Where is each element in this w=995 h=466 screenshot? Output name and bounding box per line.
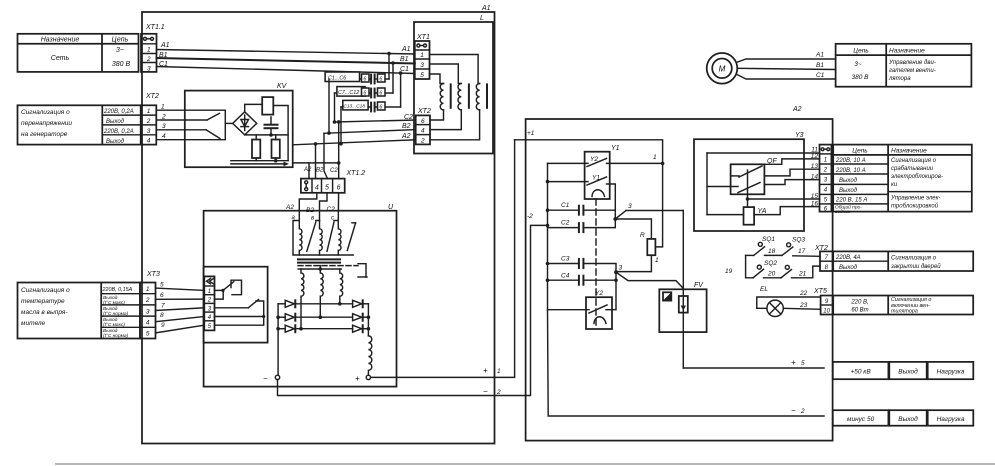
lamp EL xyxy=(760,286,783,316)
wire 15 xyxy=(746,193,820,201)
svg-text:C3: C3 xyxy=(561,256,570,263)
wire 13 xyxy=(764,163,819,176)
wire B1 xyxy=(157,52,415,65)
relay block Y1 xyxy=(585,145,620,199)
wire 11 xyxy=(707,147,820,154)
svg-text:Сигнализация о: Сигнализация о xyxy=(891,158,937,164)
svg-text:2: 2 xyxy=(145,297,150,304)
svg-text:21: 21 xyxy=(798,271,807,278)
connector XT2 (left, pins 1-4) xyxy=(141,93,159,145)
svg-text:XT3: XT3 xyxy=(146,271,160,278)
connector XT2 (pins 7,8) xyxy=(814,245,833,271)
transformer secondary star bar xyxy=(298,266,341,271)
transformer secondary winding b xyxy=(319,269,324,319)
table: +50 кВ xyxy=(833,362,974,379)
surge arrester FV xyxy=(659,211,706,369)
svg-text:10: 10 xyxy=(823,309,830,315)
wire 22 xyxy=(757,290,821,308)
svg-text:22: 22 xyxy=(799,290,808,297)
svg-text:масла в выпря-: масла в выпря- xyxy=(21,309,68,316)
svg-text:температуре: температуре xyxy=(21,298,65,305)
svg-text:B1: B1 xyxy=(159,52,168,59)
smoothing inductor xyxy=(368,336,371,375)
svg-text:B1: B1 xyxy=(816,62,824,69)
block Y3 xyxy=(694,132,804,231)
limit switch SQ1 xyxy=(746,236,776,255)
capacitor group C1...C6 xyxy=(325,54,389,135)
wire A1 (motor) xyxy=(736,52,835,63)
svg-text:220В, 0,15А: 220В, 0,15А xyxy=(102,287,133,293)
diode VD3 xyxy=(278,325,353,332)
limit switch SQ2 xyxy=(725,255,777,277)
svg-text:4: 4 xyxy=(146,320,150,327)
node -2 entry xyxy=(527,213,533,220)
sensor connector strip xyxy=(204,276,214,330)
svg-text:XT2: XT2 xyxy=(417,108,431,115)
svg-text:6: 6 xyxy=(363,91,366,97)
diode VD4 xyxy=(353,300,369,307)
svg-text:8: 8 xyxy=(160,312,164,319)
svg-text:С13...С18: С13...С18 xyxy=(343,103,365,109)
svg-text:6: 6 xyxy=(379,91,382,97)
svg-text:5: 5 xyxy=(146,331,150,338)
svg-text:Назначение: Назначение xyxy=(889,47,925,54)
wire 17 xyxy=(793,248,820,256)
KV contact 1 xyxy=(185,113,220,120)
capacitor (KV) xyxy=(265,117,278,137)
svg-text:XT5: XT5 xyxy=(813,288,827,295)
svg-text:15: 15 xyxy=(811,193,819,200)
thermal sensor block SK xyxy=(204,267,268,343)
svg-text:1: 1 xyxy=(655,257,659,264)
svg-text:лятора: лятора xyxy=(888,76,911,82)
svg-text:Сеть: Сеть xyxy=(51,55,70,62)
svg-text:5: 5 xyxy=(160,282,164,289)
wire 1 (plus output) xyxy=(371,140,515,378)
svg-text:Y1: Y1 xyxy=(611,145,620,152)
svg-text:Выход: Выход xyxy=(898,415,918,423)
svg-text:XT1.1: XT1.1 xyxy=(145,24,165,31)
svg-text:Выход: Выход xyxy=(839,188,858,194)
inductor L phase 3 xyxy=(430,55,488,140)
svg-text:380 В: 380 В xyxy=(112,61,131,68)
capacitor group C13...C18 xyxy=(339,73,400,145)
KV bottom rail with chassis arrow xyxy=(231,161,289,167)
block A2 enclosure xyxy=(526,106,833,441)
svg-text:4: 4 xyxy=(315,184,319,191)
rectifier negative bus xyxy=(276,304,280,375)
svg-text:4: 4 xyxy=(162,133,166,140)
node 3 (upper) xyxy=(613,203,683,221)
svg-text:C1: C1 xyxy=(561,202,570,209)
svg-text:XT2: XT2 xyxy=(145,93,159,100)
svg-text:1: 1 xyxy=(161,104,165,111)
wire XT1.2 pin4 to transformer a xyxy=(285,193,317,221)
svg-text:Цепь: Цепь xyxy=(112,37,129,44)
capacitor C2 xyxy=(548,219,616,232)
relay block KV xyxy=(185,83,293,167)
svg-text:2: 2 xyxy=(823,167,828,173)
svg-text:380 В: 380 В xyxy=(852,74,870,81)
svg-text:Нагрузка: Нагрузка xyxy=(937,416,965,423)
screen ground symbol xyxy=(358,264,367,277)
connector XT1 (of L, pins 1,3,5) xyxy=(415,34,430,79)
svg-text:+: + xyxy=(483,366,488,375)
svg-text:5: 5 xyxy=(420,72,424,79)
svg-text:2: 2 xyxy=(800,408,805,415)
wire 9 xyxy=(156,322,205,333)
wire C1 xyxy=(157,61,415,75)
svg-text:SQ1: SQ1 xyxy=(762,236,775,243)
connector strip (Y3, pins 1-6) xyxy=(820,145,832,213)
svg-text:1: 1 xyxy=(420,52,424,59)
svg-text:Сигнализация о: Сигнализация о xyxy=(21,109,70,116)
svg-text:2: 2 xyxy=(161,114,166,121)
contact Y2 (in Y1 block) xyxy=(587,156,607,167)
svg-text:B2: B2 xyxy=(316,168,324,174)
svg-text:L: L xyxy=(480,15,484,22)
terminal minus xyxy=(263,374,280,383)
capacitor C3 xyxy=(548,256,617,281)
svg-text:5: 5 xyxy=(801,360,805,367)
diode VD1 xyxy=(278,300,353,307)
table: минус 50 xyxy=(833,410,974,426)
KV contact 2 xyxy=(185,130,220,139)
svg-text:C4: C4 xyxy=(561,273,570,280)
table: Сигнализация о перенапряжении на генераторе xyxy=(18,105,141,145)
svg-text:закрытии дверей: закрытии дверей xyxy=(890,263,941,270)
transformer T primary winding c xyxy=(334,221,356,256)
svg-text:12: 12 xyxy=(811,153,819,160)
wire 16 xyxy=(754,200,819,214)
diode VD6 xyxy=(353,325,369,332)
wire XT1.2 pin6 to transformer c xyxy=(327,193,339,222)
diode VD2 xyxy=(278,314,353,321)
filter block L xyxy=(414,15,493,154)
svg-text:С7...С12: С7...С12 xyxy=(338,90,359,96)
capacitor C1 xyxy=(548,202,616,219)
svg-text:на генераторе: на генераторе xyxy=(21,131,68,138)
svg-text:220В, 0,2А: 220В, 0,2А xyxy=(103,129,134,135)
svg-text:Выход: Выход xyxy=(839,178,858,184)
svg-text:+: + xyxy=(355,374,360,383)
resistor R xyxy=(615,219,659,272)
node 3 (lower) xyxy=(614,265,683,289)
table: закрытие дверей xyxy=(833,251,973,271)
svg-text:Y2: Y2 xyxy=(595,290,603,297)
wire 12 xyxy=(764,153,819,165)
svg-text:C1: C1 xyxy=(816,72,825,79)
transformer secondary winding c xyxy=(338,269,343,306)
svg-text:18: 18 xyxy=(768,248,776,255)
svg-text:A2: A2 xyxy=(792,106,802,113)
svg-text:A1: A1 xyxy=(160,42,170,49)
transformer T primary winding b xyxy=(316,221,334,256)
relay block Y2 xyxy=(548,280,617,329)
svg-text:1: 1 xyxy=(653,154,657,161)
svg-text:4: 4 xyxy=(421,128,425,135)
svg-text:60 Вт: 60 Вт xyxy=(851,308,868,314)
svg-text:Выход: Выход xyxy=(898,368,918,376)
diode VD5 xyxy=(353,314,369,321)
svg-text:−: − xyxy=(263,374,268,383)
wire B2 line xyxy=(324,123,416,179)
svg-text:3~: 3~ xyxy=(854,61,862,68)
wire +5 output xyxy=(683,358,824,368)
svg-text:B2: B2 xyxy=(402,123,411,130)
svg-text:220 В, 15 А: 220 В, 15 А xyxy=(835,198,867,204)
svg-text:тилятора: тилятора xyxy=(891,309,918,315)
svg-text:+1: +1 xyxy=(527,130,535,137)
svg-text:Выход: Выход xyxy=(106,119,125,125)
svg-text:A1: A1 xyxy=(481,5,491,12)
svg-text:перенапряжении: перенапряжении xyxy=(21,120,72,127)
table: включение вентилятора xyxy=(833,296,973,315)
svg-text:в: в xyxy=(311,216,314,222)
svg-text:ки: ки xyxy=(891,182,898,188)
svg-text:14: 14 xyxy=(811,173,819,180)
svg-text:M: M xyxy=(719,65,726,74)
svg-text:Выход: Выход xyxy=(839,265,858,271)
wire 5 (XT3 pin1 to sensor) xyxy=(156,282,205,291)
svg-text:Нагрузка: Нагрузка xyxy=(937,369,965,376)
connector XT2 (of L, pins 6,4,2) xyxy=(416,108,431,144)
KV zener / resistor top xyxy=(245,97,288,161)
svg-text:1: 1 xyxy=(824,157,827,163)
svg-text:5: 5 xyxy=(325,184,329,191)
wire 23 xyxy=(783,302,820,309)
svg-text:20: 20 xyxy=(767,271,776,278)
table: электроблокировка xyxy=(833,145,972,215)
svg-text:C2: C2 xyxy=(404,114,413,121)
svg-text:220В, 10 А: 220В, 10 А xyxy=(835,168,866,174)
resistor (KV left) xyxy=(252,135,260,161)
inductor L phase 1 xyxy=(430,74,451,120)
svg-text:SQ2: SQ2 xyxy=(764,260,777,267)
svg-text:(t°С норма): (t°С норма) xyxy=(103,333,129,339)
svg-text:220В, 10 А: 220В, 10 А xyxy=(835,158,866,164)
svg-text:Сигнализация о: Сигнализация о xyxy=(891,256,937,262)
svg-text:срабатывании: срабатывании xyxy=(891,166,934,172)
svg-text:3: 3 xyxy=(628,203,632,210)
motor M xyxy=(707,53,738,84)
svg-text:троблокировкой: троблокировкой xyxy=(891,203,939,210)
svg-text:3: 3 xyxy=(147,66,151,73)
svg-text:Управление дви-: Управление дви- xyxy=(888,60,936,66)
svg-text:6: 6 xyxy=(421,118,425,125)
wire KV output to C2 drop xyxy=(293,163,339,179)
svg-text:3: 3 xyxy=(147,128,151,135)
svg-text:Цепь: Цепь xyxy=(852,147,868,154)
svg-text:Цепь: Цепь xyxy=(853,47,869,54)
svg-text:6: 6 xyxy=(379,77,382,83)
svg-text:19: 19 xyxy=(725,268,733,275)
inductor L phase 2 xyxy=(430,64,469,130)
contact Y1 (in Y1 block) xyxy=(548,175,616,211)
transformer secondary winding a xyxy=(299,269,304,331)
svg-text:A2: A2 xyxy=(401,133,411,140)
svg-text:Y3: Y3 xyxy=(795,132,804,139)
wire B1 (motor) xyxy=(737,62,835,70)
svg-text:(t°С норма): (t°С норма) xyxy=(103,311,129,317)
svg-text:EL: EL xyxy=(760,286,768,293)
connector XT5 (pins 9,10) xyxy=(813,288,833,315)
mechanical link (dashed) xyxy=(595,199,597,326)
table: Сигнализация о температуре масла в выпрямителе xyxy=(18,283,141,340)
svg-text:+50 кВ: +50 кВ xyxy=(850,369,871,376)
svg-text:XT1: XT1 xyxy=(416,34,430,41)
transformer core xyxy=(298,259,358,265)
wire 1 (XT2.1 to KV) xyxy=(156,104,185,111)
svg-text:16: 16 xyxy=(811,200,819,207)
svg-text:2: 2 xyxy=(496,389,501,396)
svg-text:KV: KV xyxy=(277,83,288,90)
sensor contact group 1 xyxy=(215,280,242,299)
svg-text:Выход: Выход xyxy=(106,139,125,145)
terminal plus xyxy=(355,374,371,383)
svg-text:3: 3 xyxy=(162,123,166,130)
svg-text:1: 1 xyxy=(208,289,211,295)
svg-text:3: 3 xyxy=(420,62,424,69)
svg-text:(t°С макс): (t°С макс) xyxy=(103,322,125,328)
resistor (KV right) xyxy=(272,135,280,163)
svg-text:6: 6 xyxy=(337,184,341,191)
Y3 left loop xyxy=(707,153,744,215)
svg-text:220В, 0,2А: 220В, 0,2А xyxy=(103,109,134,115)
svg-text:4: 4 xyxy=(147,138,151,145)
wire 3 xyxy=(156,123,185,130)
wire 2 xyxy=(156,114,185,121)
block A1 enclosure xyxy=(142,5,495,444)
node +1 xyxy=(515,130,663,247)
sensor contact group 2 xyxy=(215,300,266,326)
svg-text:С1...С6: С1...С6 xyxy=(328,75,346,81)
svg-text:17: 17 xyxy=(798,248,806,255)
svg-text:220 В,: 220 В, xyxy=(850,300,868,306)
svg-text:Назначение: Назначение xyxy=(891,147,927,154)
svg-text:6: 6 xyxy=(379,105,382,111)
svg-text:водник: водник xyxy=(835,209,851,215)
svg-text:C1: C1 xyxy=(159,61,168,68)
svg-text:9: 9 xyxy=(161,322,165,329)
svg-text:A1: A1 xyxy=(815,52,824,59)
wire C1 (motor) xyxy=(736,72,835,79)
svg-text:C2: C2 xyxy=(330,168,338,174)
svg-text:6: 6 xyxy=(363,77,366,83)
svg-text:C2: C2 xyxy=(327,206,336,213)
svg-text:B1: B1 xyxy=(400,56,409,63)
wire 14 xyxy=(764,173,819,184)
svg-text:2: 2 xyxy=(420,137,425,144)
scan border line bottom xyxy=(55,463,995,465)
wire XT1.2 pin5 to transformer b xyxy=(306,193,327,222)
svg-text:гателем венти-: гателем венти- xyxy=(889,68,936,74)
svg-text:2: 2 xyxy=(207,298,212,304)
capacitor C4 xyxy=(548,273,618,285)
svg-text:A1: A1 xyxy=(401,46,411,53)
svg-text:7: 7 xyxy=(161,303,165,310)
svg-text:-2: -2 xyxy=(527,213,533,220)
wire 4 xyxy=(156,133,185,140)
svg-text:1: 1 xyxy=(497,368,501,375)
transformer T primary winding a xyxy=(295,221,316,256)
rectifier block U xyxy=(204,204,397,387)
diode bridge VD (KV) xyxy=(225,112,256,135)
svg-text:2: 2 xyxy=(146,118,151,125)
rectifier positive bus xyxy=(367,304,371,336)
svg-text:−: − xyxy=(483,387,488,396)
limit switch SQ3 xyxy=(765,237,806,256)
breaker QF xyxy=(707,158,777,207)
svg-text:мителе: мителе xyxy=(21,320,46,327)
wire A1 (XT1.1 pin1 to L XT1 pin1) xyxy=(157,42,415,55)
svg-text:Управление элек-: Управление элек- xyxy=(890,196,940,202)
connector XT3 (left, pins 1-5) xyxy=(140,271,160,339)
capacitor group C7...C12 xyxy=(333,63,393,124)
svg-text:R: R xyxy=(640,232,645,239)
svg-text:+: + xyxy=(791,358,796,367)
wire 1 (Y2 contact row) xyxy=(548,154,665,165)
svg-text:Назначение: Назначение xyxy=(41,37,80,44)
wire C2 line xyxy=(335,114,416,179)
svg-text:1: 1 xyxy=(146,286,150,293)
svg-text:220В, 4А: 220В, 4А xyxy=(835,255,861,261)
limit switch SQ4 xyxy=(764,265,792,278)
wire 8 xyxy=(156,312,205,322)
svg-text:2: 2 xyxy=(146,56,151,63)
svg-text:6: 6 xyxy=(160,292,164,299)
svg-text:A2: A2 xyxy=(303,167,312,173)
wire 2 (minus output) xyxy=(278,225,548,396)
wire A2 line xyxy=(293,133,416,179)
trip coil YA xyxy=(744,207,767,225)
wire 21 xyxy=(792,266,821,278)
svg-text:1: 1 xyxy=(147,47,151,54)
left bus (A2) xyxy=(546,163,550,309)
svg-text:минус 50: минус 50 xyxy=(847,416,875,423)
svg-text:XT1.2: XT1.2 xyxy=(346,170,366,177)
svg-text:3~: 3~ xyxy=(116,47,124,54)
svg-text:13: 13 xyxy=(811,163,819,170)
svg-text:(t°С макс): (t°С макс) xyxy=(103,300,125,306)
transformer primary return bar xyxy=(293,221,353,256)
svg-text:1: 1 xyxy=(147,108,151,115)
svg-text:3: 3 xyxy=(619,265,623,272)
wire -2 output xyxy=(548,310,825,416)
KV mid rail xyxy=(245,134,288,136)
table: управление двигателем вентилятора xyxy=(836,44,972,87)
svg-text:3: 3 xyxy=(146,309,150,316)
wire 7 xyxy=(156,303,205,311)
connector XT1.1 xyxy=(141,24,165,73)
table: Сеть 3~ 380В xyxy=(18,34,139,72)
svg-text:SQ3: SQ3 xyxy=(792,237,805,244)
wire 6 xyxy=(156,292,205,299)
svg-text:электроблокиров-: электроблокиров- xyxy=(891,174,943,180)
KV contact rail xyxy=(185,110,226,140)
svg-text:−: − xyxy=(791,406,796,415)
svg-text:23: 23 xyxy=(799,302,808,309)
svg-text:Сигнализация о: Сигнализация о xyxy=(21,287,70,294)
connector XT1.2 xyxy=(301,167,365,193)
svg-text:C2: C2 xyxy=(561,220,570,227)
svg-text:FV: FV xyxy=(694,282,704,289)
